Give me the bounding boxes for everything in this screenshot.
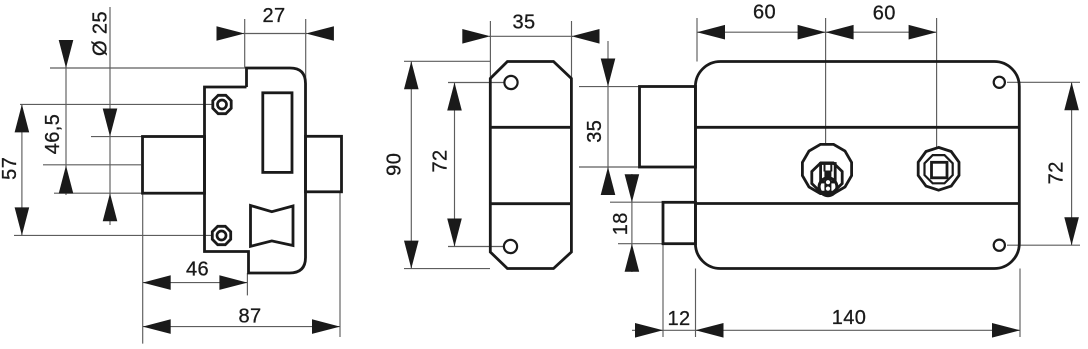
svg-text:60: 60 (753, 2, 776, 24)
svg-text:140: 140 (832, 307, 867, 329)
svg-text:60: 60 (873, 3, 896, 25)
svg-text:35: 35 (512, 12, 535, 34)
svg-text:46,5: 46,5 (42, 114, 64, 155)
svg-text:72: 72 (1046, 161, 1068, 184)
svg-text:12: 12 (667, 308, 690, 330)
svg-text:35: 35 (584, 120, 606, 143)
svg-text:57: 57 (0, 157, 21, 180)
svg-text:27: 27 (262, 5, 285, 27)
svg-text:Ø 25: Ø 25 (90, 11, 112, 56)
svg-text:18: 18 (610, 212, 632, 235)
svg-text:90: 90 (384, 153, 406, 176)
svg-text:72: 72 (430, 149, 452, 172)
svg-text:87: 87 (238, 306, 261, 328)
svg-text:46: 46 (186, 259, 209, 281)
